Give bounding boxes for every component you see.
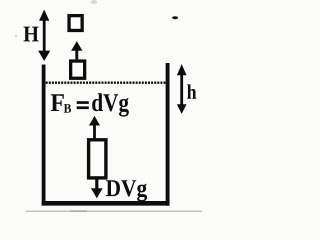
label B subscript <box>64 104 71 113</box>
faint scan line below container <box>26 210 202 212</box>
label h <box>187 84 196 98</box>
buoyancy arrow up <box>89 116 100 140</box>
faint scan smudge top edge <box>91 0 97 4</box>
label dVg <box>92 93 129 116</box>
weight arrow down <box>91 179 103 198</box>
floating square lower (at waterline) <box>71 61 85 78</box>
rise arrow between squares <box>71 41 82 59</box>
water surface dotted line <box>46 81 166 83</box>
darker stretch of faint scan line <box>70 210 87 212</box>
faint scan speck left margin <box>15 35 17 37</box>
label F <box>51 94 64 111</box>
label H <box>24 27 39 42</box>
container bottom wall <box>42 201 170 206</box>
stray scan dash top right <box>172 16 178 19</box>
equals sign <box>77 101 89 104</box>
label DVg <box>106 180 147 201</box>
submerged block <box>89 140 106 178</box>
h dimension arrow <box>177 64 187 114</box>
container left wall <box>42 65 46 206</box>
floating square upper <box>69 16 82 31</box>
paper background <box>0 0 213 217</box>
H dimension arrow <box>38 10 50 62</box>
container right wall <box>166 63 170 206</box>
